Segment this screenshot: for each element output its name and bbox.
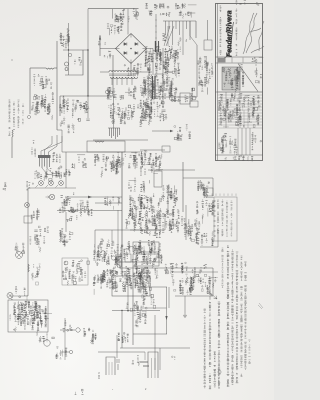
junction xyxy=(127,310,128,311)
title ruled row xyxy=(218,118,263,120)
wire xyxy=(60,351,69,353)
wire xyxy=(145,89,172,91)
wire xyxy=(148,169,195,171)
wire xyxy=(140,286,167,288)
arrowhead xyxy=(165,316,167,320)
pot VR4 labels xyxy=(15,243,25,253)
wire xyxy=(137,71,152,73)
label B+ xyxy=(124,64,142,77)
tube V1 pin labels xyxy=(34,169,53,182)
title ruled row xyxy=(218,100,263,102)
parts xyxy=(197,181,214,198)
cell text xyxy=(252,58,264,63)
jack J2 arrow xyxy=(46,185,49,188)
wire xyxy=(65,212,67,232)
transistor Q2 xyxy=(44,340,50,346)
connector pin 3 wire xyxy=(172,21,174,45)
tiny label xyxy=(3,183,7,190)
diode CR2 xyxy=(135,42,138,45)
label 27k xyxy=(11,296,21,300)
power transformer T1 secondary winding xyxy=(111,77,138,79)
note text line x=241.5 xyxy=(240,256,243,376)
wire xyxy=(120,261,162,263)
label cluster xyxy=(104,196,120,209)
wire xyxy=(99,35,101,56)
arrow symbol xyxy=(79,105,85,107)
note text line x=228.0 xyxy=(227,246,230,387)
component box xyxy=(190,101,198,107)
bridge center node xyxy=(130,48,132,50)
bottom row cluster xyxy=(93,267,152,295)
wire xyxy=(127,9,129,35)
capacitor C plates xyxy=(34,230,37,236)
wire xyxy=(133,333,167,335)
wire xyxy=(68,23,70,75)
label 117VAC xyxy=(33,74,52,89)
lower right text xyxy=(251,132,261,149)
ruled rows text xyxy=(218,93,260,128)
bent feed wire xyxy=(41,136,62,155)
wire xyxy=(100,71,109,73)
wire xyxy=(140,149,165,151)
section C divider xyxy=(239,63,241,92)
wire xyxy=(183,177,213,179)
resistor heater R1 xyxy=(160,52,161,59)
capacitor C plates xyxy=(116,360,120,370)
resistor grid R xyxy=(12,130,13,137)
wire xyxy=(56,41,58,130)
jack J4a X contact xyxy=(50,195,54,199)
tube V2 labels xyxy=(108,103,135,124)
title ruled row xyxy=(218,115,263,117)
labels xyxy=(31,208,40,220)
wire xyxy=(87,9,89,50)
connector pin 2 wire xyxy=(168,21,170,29)
input label line 2 xyxy=(13,102,15,130)
pot VR3 xyxy=(100,251,106,257)
input jack J3 xyxy=(59,181,64,186)
junction xyxy=(87,49,88,50)
driver stage cluster xyxy=(125,194,160,232)
corner scribble xyxy=(258,303,263,309)
preamp out box xyxy=(62,258,88,285)
output tubes rail xyxy=(172,271,218,273)
connector pin 4 wire xyxy=(175,21,177,29)
footswitch bracket symbol xyxy=(148,352,158,378)
dashed chassis wire xyxy=(155,14,157,60)
tiny marks xyxy=(172,356,176,360)
input label line 1 xyxy=(8,100,10,136)
wire xyxy=(120,267,162,269)
jack J3 X contact xyxy=(59,181,62,184)
triode circle xyxy=(192,96,196,100)
title ruled row xyxy=(218,112,263,114)
jack labels xyxy=(55,347,67,359)
labels xyxy=(31,264,40,285)
svg-text:CR 6: CR 6 xyxy=(97,372,101,379)
aux jack J4a xyxy=(49,194,55,200)
title ruled row xyxy=(218,127,263,129)
diagonal wire xyxy=(164,26,170,46)
junction xyxy=(68,49,69,50)
ground xyxy=(183,313,187,318)
label 12AX7 xyxy=(55,166,67,177)
speaker bracket symbol xyxy=(106,357,115,375)
OT primary wire xyxy=(162,48,164,107)
note text line x=245.5 xyxy=(244,262,247,370)
drawing area dark panel xyxy=(222,67,240,90)
manufacturer address line xyxy=(220,6,222,55)
capacitor line filter labels xyxy=(114,9,138,23)
parts xyxy=(140,197,155,218)
title ruled row xyxy=(218,91,263,93)
title divider xyxy=(216,56,263,58)
tone cluster xyxy=(165,262,207,274)
ground bus wire xyxy=(98,351,145,353)
wire xyxy=(100,48,117,50)
pot VR4 xyxy=(16,252,23,259)
wire xyxy=(65,50,83,75)
title ruled row xyxy=(218,103,263,105)
long B+ rail xyxy=(121,152,123,276)
lower column divider xyxy=(241,128,243,155)
wire xyxy=(111,9,113,19)
diagonal wire xyxy=(166,26,174,46)
long wire xyxy=(62,151,140,153)
wire xyxy=(135,9,137,19)
switch contact xyxy=(68,53,71,56)
connector pin 8 wire xyxy=(189,21,191,40)
diode CR1 xyxy=(124,42,127,45)
feedback loop wire xyxy=(87,141,125,152)
connector pin 7 wire xyxy=(186,21,188,29)
capacitor C plates xyxy=(86,119,89,120)
input label line 3 xyxy=(18,100,20,128)
lower left text rows xyxy=(218,134,237,155)
connector text line 1 xyxy=(217,200,219,233)
wire xyxy=(112,55,114,96)
parts xyxy=(140,150,163,175)
wire xyxy=(28,187,76,189)
revision cell dark mark xyxy=(218,58,226,63)
label column right xyxy=(204,56,213,84)
caps diodes cluster xyxy=(181,216,206,241)
bridge corner stubs xyxy=(116,34,147,64)
connector pin 5 wire xyxy=(179,21,181,35)
phase inverter cluster xyxy=(153,207,180,235)
connector pin 6 wire xyxy=(182,21,184,55)
tube socket V1 body xyxy=(38,155,51,158)
pin fan-out wire xyxy=(42,168,58,176)
wire xyxy=(11,137,13,158)
note column xyxy=(197,57,210,95)
connector text line 2 xyxy=(221,200,223,236)
wire xyxy=(159,348,161,370)
thick chassis mark 2 xyxy=(158,41,160,52)
ext speaker jack J5 xyxy=(69,350,72,353)
label column xyxy=(34,102,54,120)
jack J6 xyxy=(25,203,30,208)
heater bus wire xyxy=(163,20,196,22)
wire xyxy=(65,152,67,188)
label xyxy=(140,222,161,237)
resistor fuse F1 xyxy=(46,68,54,69)
volume pot cluster xyxy=(138,268,159,286)
B+ feed wire xyxy=(120,347,190,349)
supply box contents xyxy=(135,256,156,268)
note text line x=232.5 xyxy=(231,250,234,384)
note text line x=237.0 xyxy=(236,252,239,383)
title divider xyxy=(216,62,263,64)
parts xyxy=(143,292,156,309)
reverb pot cluster xyxy=(93,239,123,267)
lower column divider xyxy=(237,128,239,155)
footswitch bracket inner xyxy=(152,358,156,378)
wire xyxy=(130,63,132,77)
wire xyxy=(150,96,197,98)
tube V5 V6 labels xyxy=(143,76,174,100)
wire xyxy=(117,210,119,262)
wire xyxy=(87,96,89,118)
wire xyxy=(61,130,63,152)
wire xyxy=(121,310,123,348)
component box xyxy=(162,146,170,152)
wire xyxy=(57,210,122,212)
tube V1 left labels xyxy=(31,141,36,157)
power transformer T1 primary winding xyxy=(109,71,136,73)
transformer T1 labels xyxy=(107,86,137,100)
wire xyxy=(95,202,122,204)
capacitor box xyxy=(24,216,32,223)
wire xyxy=(122,229,160,231)
wire xyxy=(154,340,156,370)
pin bottom parts xyxy=(162,34,166,41)
relay box xyxy=(154,171,162,187)
resistor heater R2 xyxy=(170,52,171,59)
junction xyxy=(121,310,122,311)
wire xyxy=(116,335,118,358)
labels near switch xyxy=(60,117,75,133)
wire xyxy=(94,230,96,252)
jack row labels xyxy=(44,169,71,180)
drawing panel texture xyxy=(222,68,240,93)
wire xyxy=(184,296,186,313)
section C right text xyxy=(241,65,262,87)
label xyxy=(66,216,77,222)
row sub-column divider xyxy=(243,110,245,128)
pot VR2 volume xyxy=(142,273,148,279)
arrow wire xyxy=(152,130,172,132)
wire xyxy=(60,95,113,97)
label col xyxy=(63,96,69,112)
OT primary wire xyxy=(196,45,198,97)
wire xyxy=(130,229,165,231)
parts right xyxy=(196,229,215,245)
pot VR5 X contacts xyxy=(8,294,12,298)
wire xyxy=(59,96,61,116)
component box xyxy=(155,74,163,86)
wire xyxy=(207,20,209,40)
tube socket V2 pins xyxy=(108,128,120,139)
bias cluster xyxy=(59,229,72,247)
speaker matching cluster xyxy=(133,303,147,327)
jack J4a arrow xyxy=(46,196,50,198)
title ruled row xyxy=(218,109,263,111)
reverb send wire xyxy=(27,188,29,296)
Q2 labels xyxy=(39,333,55,342)
parts xyxy=(140,218,151,233)
wire xyxy=(10,295,28,297)
label xyxy=(75,100,89,109)
title block outer border xyxy=(216,4,263,161)
reverb driver contents xyxy=(9,301,52,336)
connector pin labels row 2 xyxy=(148,11,195,19)
wire xyxy=(127,276,129,312)
parts xyxy=(171,88,194,102)
cluster xyxy=(62,260,90,286)
note text line x=204.7 xyxy=(203,309,206,388)
row sub-column divider xyxy=(239,110,241,128)
note text line x=214.8 xyxy=(214,352,217,388)
row column divider xyxy=(225,92,227,128)
fuse holder xyxy=(65,68,68,71)
wire xyxy=(182,162,184,212)
tube V2 labels right xyxy=(137,100,167,120)
row sub-column divider xyxy=(247,110,249,128)
component box xyxy=(125,254,131,262)
wire xyxy=(200,246,218,248)
diode CR3 xyxy=(135,51,138,54)
bent feed wire xyxy=(45,136,53,155)
wire xyxy=(175,295,213,297)
transformer T1 lead pins xyxy=(112,77,132,85)
label AC xyxy=(98,37,106,45)
wire xyxy=(168,287,170,308)
note item circle xyxy=(218,370,221,373)
pilot lamp I1 xyxy=(65,62,69,66)
wire xyxy=(195,21,197,38)
wire xyxy=(112,310,160,312)
connector text line 4 xyxy=(230,201,232,236)
hand-written signature scrawl xyxy=(243,13,264,54)
jack J6 X contacts xyxy=(25,203,28,206)
component box xyxy=(180,93,190,104)
note text line x=219.0 xyxy=(218,302,221,389)
component box xyxy=(205,188,213,196)
jack J1 arrow xyxy=(36,185,39,188)
parts xyxy=(196,200,215,219)
wire xyxy=(57,129,62,131)
diagonal rule xyxy=(238,64,258,92)
choke core thick bars xyxy=(153,76,156,99)
wire xyxy=(30,67,46,69)
note text line x=249.5 xyxy=(248,340,251,364)
thermal fuse xyxy=(105,90,108,93)
wire xyxy=(60,329,75,331)
resistor parts xyxy=(87,207,93,216)
transistor Q1 xyxy=(29,310,35,316)
bottom band text xyxy=(225,155,254,161)
wire xyxy=(132,266,134,345)
logo subtitle line xyxy=(236,9,238,56)
pot VR4 X contacts xyxy=(17,253,21,257)
tick marks xyxy=(155,20,157,44)
node xyxy=(12,60,13,61)
tube socket V1 pins xyxy=(40,158,50,169)
input jack J2 xyxy=(49,181,54,186)
title block inner left border xyxy=(217,4,219,161)
connector pin 1 wire xyxy=(165,21,167,35)
title ruled row xyxy=(218,124,263,126)
output stage cluster xyxy=(123,240,163,266)
connector text line 3 xyxy=(226,201,228,237)
tick row above connector xyxy=(212,194,236,196)
title ruled row xyxy=(218,97,263,99)
tube heater pin labels xyxy=(145,46,181,81)
output tube cluster xyxy=(171,274,218,295)
capacitor C plates xyxy=(162,110,166,112)
jack circle xyxy=(64,261,68,265)
title divider xyxy=(216,154,263,156)
corner header text xyxy=(236,0,259,5)
wire xyxy=(111,230,113,242)
junction xyxy=(87,95,88,96)
labels xyxy=(15,287,27,304)
cap parts xyxy=(131,152,143,164)
supply box 2 xyxy=(133,254,159,266)
wire AC bus xyxy=(88,8,139,10)
note heading column xyxy=(221,248,223,288)
wire thick xyxy=(87,50,89,96)
speaker jack labels xyxy=(63,320,73,331)
wire xyxy=(185,205,187,240)
jack J1 X contact xyxy=(39,181,42,184)
jack J3 arrow xyxy=(56,185,59,188)
wire xyxy=(212,268,214,296)
label xyxy=(104,51,112,58)
parts xyxy=(174,124,191,140)
resistor feedback xyxy=(95,141,104,142)
wire xyxy=(63,49,88,51)
bypass cap circle xyxy=(95,156,99,160)
lower column divider xyxy=(249,128,251,155)
T2 inner text xyxy=(114,282,126,292)
cathode cluster xyxy=(59,200,89,216)
tiny footer text xyxy=(75,389,84,395)
capacitor bank xyxy=(138,279,147,298)
label ground polarity xyxy=(31,93,54,113)
resistor cap pair xyxy=(83,328,97,344)
component box xyxy=(204,40,212,50)
cell ticks xyxy=(232,58,243,63)
bias box contents xyxy=(134,243,156,253)
diode CR4 xyxy=(124,51,127,54)
left edge comp xyxy=(26,181,33,190)
small labels xyxy=(132,356,140,366)
labels xyxy=(29,226,49,252)
connector pin labels row 1 xyxy=(145,3,196,9)
parts xyxy=(160,185,178,205)
bent feed wire xyxy=(49,135,58,155)
arrowhead xyxy=(88,196,92,199)
note text line x=210.0 xyxy=(209,290,212,389)
label lamp xyxy=(74,58,82,65)
thick chassis mark xyxy=(155,41,157,52)
wire xyxy=(140,307,167,309)
wire xyxy=(212,178,214,196)
label heater xyxy=(59,99,69,114)
junction xyxy=(162,106,163,107)
